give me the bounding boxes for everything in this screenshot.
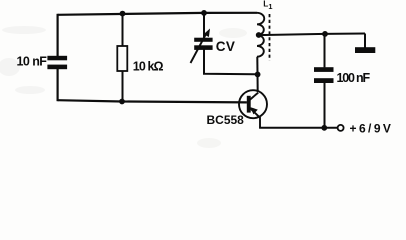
svg-text:100 nF: 100 nF [337,71,371,85]
antenna terminal bar [355,47,375,53]
wire CV bottom lead [204,49,258,74]
wire resistor bottom lead [122,71,124,102]
node coil tap [256,32,262,38]
svg-text:BC558: BC558 [207,113,245,127]
inductor L1 coil [257,13,264,57]
wire top rail [58,13,257,15]
svg-text:10 kΩ: 10 kΩ [133,60,164,74]
wire 100nF bottom lead [324,83,326,128]
node junction top rail / resistor [120,11,126,17]
svg-text:CV: CV [216,39,235,54]
wire base rail [58,100,247,102]
wire coil tap to right [258,34,365,36]
capacitor CV (variable) [191,29,213,64]
wire left rail lower [56,69,58,101]
transistor Q1 BC558 [239,90,267,128]
node junction top rail / CV [201,10,207,16]
wire CV top lead [203,13,205,39]
wire left rail upper [56,14,58,57]
resistor R1 10 kΩ [117,46,127,71]
node junction bottom rail / 100nF [321,125,327,131]
wire antenna lead [364,34,366,48]
svg-text:+ 6 / 9 V: + 6 / 9 V [350,122,391,136]
inductor core dashed line [269,14,271,61]
capacitor C2 100 nF [314,67,334,83]
capacitor C1 10 nF [47,56,67,69]
wire bottom rail [259,127,337,129]
wire coil bottom to collector [256,57,258,92]
supply terminal +6/9V [338,125,344,131]
wire 100nF top lead [324,34,326,68]
node junction tap wire / 100nF [322,31,328,37]
node junction coil / CV bottom [255,72,261,78]
svg-text:10 nF: 10 nF [17,55,48,69]
node junction base rail / resistor [119,99,125,105]
wire resistor top lead [122,13,124,46]
paper background [0,0,406,156]
